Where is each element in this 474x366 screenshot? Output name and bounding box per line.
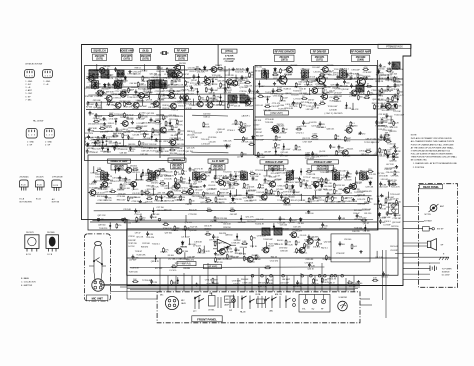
right connectors [389,203,399,214]
svg-text:CT71 2.2K: CT71 2.2K [174,85,184,87]
resistor R67 [220,82,227,88]
svg-text:CT48 220: CT48 220 [377,156,386,158]
label [269,244,279,246]
wire [94,209,370,212]
resistor R26 [391,182,397,186]
label [390,180,398,182]
resistor R28 [379,148,387,154]
svg-text:Q85 0.01: Q85 0.01 [361,154,370,156]
label [147,189,157,191]
label [291,95,299,97]
resistor R53 [142,76,149,82]
label [263,96,271,98]
label [169,119,179,121]
label [132,201,141,203]
resistor R63 [325,178,330,184]
svg-text:4 : ANT: 4 : ANT [25,89,32,92]
svg-text:R85 0.047: R85 0.047 [117,199,127,201]
label [285,188,294,190]
resistor R57 [363,67,369,71]
svg-text:L80 100: L80 100 [363,230,371,232]
label [280,156,289,158]
svg-text:MIC UNIT: MIC UNIT [92,297,104,301]
svg-text:TC96 5.6K: TC96 5.6K [139,117,149,119]
label [168,258,176,260]
label [124,223,132,225]
svg-text:R57 22K: R57 22K [201,71,209,73]
switches mid [240,296,265,314]
resistor R92 [272,72,278,76]
label [219,242,228,244]
label [324,87,332,89]
label [194,242,202,244]
svg-text:D60 220: D60 220 [164,209,172,211]
svg-text:Q92 560: Q92 560 [319,228,327,230]
label [209,141,217,143]
resistor R95 [152,128,158,134]
wire [267,96,268,103]
resistor R92 [277,191,284,197]
label [328,75,338,77]
resistor R34 [222,175,228,179]
label [390,246,399,248]
svg-text:L23 6.8K: L23 6.8K [329,109,337,111]
label [239,91,247,93]
label [335,88,342,90]
capacitor C75 [289,217,298,222]
wire [100,101,102,108]
label AMF [242,115,250,118]
svg-text:TC67 47: TC67 47 [171,110,179,112]
legend abbreviation [21,277,36,287]
label [192,196,201,198]
label [175,191,182,193]
label [344,179,352,181]
wire [142,169,143,176]
label [387,144,397,146]
svg-text:RF AMP: RF AMP [177,49,187,53]
wire [92,218,373,221]
label [374,154,383,156]
label [98,200,107,202]
svg-text:D87 22K: D87 22K [273,148,281,150]
label [146,237,155,239]
capacitor C79 [293,189,301,194]
label [216,132,223,134]
svg-text:R36 6.8K: R36 6.8K [285,175,294,177]
label [190,83,201,85]
label [192,192,200,194]
label [334,179,343,181]
resistor R50 [249,72,255,78]
label [165,188,174,190]
label [231,243,240,245]
capacitor C60 [337,75,344,80]
label [141,154,149,156]
transistor RF 321.4 [315,74,331,85]
svg-text:2SC600: 2SC600 [288,196,296,198]
label [194,172,202,174]
label [152,243,161,245]
capacitor C47 [124,177,131,182]
wire [236,233,237,240]
label [256,135,264,137]
label [160,201,168,203]
transformer cluster at 228 [228,95,237,103]
svg-text:R94 5.6K: R94 5.6K [157,71,166,73]
svg-text:TC38 47: TC38 47 [135,251,143,253]
label [223,227,231,229]
resistor R46 [368,197,374,203]
label [110,181,118,183]
label [246,101,255,103]
diode D13 [104,83,106,88]
label [364,202,372,204]
transformer cluster at 274 [274,228,282,235]
label [293,91,302,93]
label [274,155,283,157]
label [278,105,285,107]
transistor Q34 [198,172,212,179]
svg-text:2SC1969: 2SC1969 [47,232,54,234]
label [133,72,142,74]
label [344,73,353,75]
resistor R21 [171,264,177,268]
transistor Q53 [97,66,111,73]
label [170,94,180,96]
svg-text:Q9 22K: Q9 22K [230,203,237,205]
label [394,82,402,84]
wire [193,99,195,106]
label [108,123,116,125]
label [385,168,393,170]
transistor RF 361.4 [355,76,371,87]
resistor R85 [233,95,240,101]
label [161,186,169,188]
note text [411,135,458,169]
svg-text:2SC823: 2SC823 [236,79,244,81]
ground [307,210,310,213]
transistor Q56 [114,101,128,108]
svg-text:1. CHASSIS GND : AT BOTTOM NEG: 1. CHASSIS GND : AT BOTTOM NEGATIVE LINE [413,162,458,165]
label [308,103,316,105]
transistor Q6 [209,65,223,72]
resistor R52 [379,90,385,96]
label [322,259,332,261]
stage label 23MHz IF AMP [108,159,131,170]
svg-text:TC55 0.047: TC55 0.047 [390,194,401,196]
label [297,182,304,184]
label [168,130,175,132]
svg-text:TC31 100P: TC31 100P [378,122,388,124]
transistor package 2SC945 [20,180,29,191]
svg-text:Q92 33P: Q92 33P [226,251,234,253]
capacitor C14 [132,255,140,260]
svg-text:TC46 6.8K: TC46 6.8K [214,255,224,257]
label [391,226,399,228]
label [85,96,94,98]
label [337,178,345,180]
label [384,154,393,156]
label [140,134,148,136]
transistor Q36 [173,63,187,70]
label [199,179,208,181]
label [265,122,274,124]
wire [107,146,108,153]
svg-text:2SC339: 2SC339 [311,237,319,239]
label [268,181,276,183]
label [177,151,185,153]
svg-text:L32 0.047: L32 0.047 [338,171,347,173]
svg-text:Q15 10K: Q15 10K [341,89,349,91]
resistor R8 [359,88,365,94]
wire [176,133,178,140]
label [183,74,190,76]
label [392,218,401,220]
svg-text:2SC945(K): 2SC945(K) [20,176,29,178]
ground [323,84,326,87]
resistor R55 [385,139,391,143]
wire [115,118,116,125]
label [234,81,243,83]
label [357,203,366,205]
svg-text:CT31 100P: CT31 100P [216,105,226,107]
diode D15 [314,184,316,189]
label [182,183,191,185]
label [360,171,369,173]
label [138,88,147,90]
capacitor C91 [135,90,142,95]
svg-text:CT20 47: CT20 47 [132,222,140,224]
transformer cluster at 392 [392,62,400,69]
label PTBM057AOX [378,44,411,48]
resistor R69 [163,247,170,253]
wire [93,166,95,173]
capacitor C11 [311,151,318,156]
label [394,114,405,116]
resistor R63 [147,169,153,175]
svg-text:R12 0.047: R12 0.047 [273,140,283,142]
wire [159,66,161,158]
resistor R15 [128,88,135,94]
label [154,130,163,132]
label [189,71,197,73]
svg-text:TC12 2.2K: TC12 2.2K [92,148,102,150]
label [89,128,98,130]
resistor R23 [300,182,307,188]
label [117,199,127,201]
svg-text:D24 33P: D24 33P [188,257,196,259]
resistor R69 [136,217,144,223]
svg-text:455KHz IF AMP: 455KHz IF AMP [314,160,332,164]
transistor Q15 [159,126,173,133]
svg-text:C60 100P: C60 100P [324,186,333,188]
resistor R25 [143,94,149,98]
label [306,174,316,176]
svg-text:L63 4.7K: L63 4.7K [249,200,257,202]
svg-text:2SC101: 2SC101 [175,71,183,73]
label [391,108,399,110]
label [130,267,140,269]
label [351,69,360,71]
svg-text:EXT SP: EXT SP [437,229,444,231]
label [280,152,289,154]
svg-text:R72 22K: R72 22K [257,188,265,190]
label [379,129,386,131]
label [224,141,233,143]
svg-text:2SC344: 2SC344 [265,193,273,195]
label [190,137,198,139]
board outline osc box [331,234,370,262]
label [240,171,248,173]
svg-text:C78 100P: C78 100P [351,69,360,71]
svg-text:D88 100P: D88 100P [326,172,335,174]
vertical wires to front panel [160,258,354,292]
label [257,188,265,190]
svg-text:NOISE AMP: NOISE AMP [120,49,134,53]
label [273,72,281,74]
svg-text:ANL ON: ANL ON [275,293,282,296]
label [155,91,165,93]
label [262,235,272,237]
svg-text:D21 1K: D21 1K [234,105,241,107]
label [163,141,172,143]
svg-text:L48 0.1: L48 0.1 [90,183,97,185]
resistor R94 [243,183,250,189]
label [329,90,336,92]
junction row [251,274,343,277]
svg-text:L90 220: L90 220 [194,85,202,87]
label [101,151,110,153]
svg-text:D59 47: D59 47 [308,100,315,102]
capacitor C63 [394,212,402,217]
svg-text:TC65 560: TC65 560 [85,96,94,98]
label [285,171,294,173]
svg-text:TC6 0.01: TC6 0.01 [308,76,317,78]
resistor R17 [174,225,180,231]
svg-text:FOLLOW: A VIEW OF MAJOR ORDER: FOLLOW: A VIEW OF MAJOR ORDER WIRES [411,153,453,156]
label [345,197,353,199]
label [282,149,292,151]
resistor R86 [121,80,127,86]
svg-text:TC71 47: TC71 47 [303,177,311,179]
svg-text:L57 33P: L57 33P [384,224,392,226]
resistor R25 [247,194,254,198]
svg-text:TC99 6.8K: TC99 6.8K [283,192,293,194]
svg-text:Q25 2.2K: Q25 2.2K [187,147,196,149]
label [227,130,236,132]
label [155,141,163,143]
label [228,188,236,190]
transistor Q9 [100,180,114,187]
label [387,68,396,70]
label [220,189,228,191]
svg-text:D59 470: D59 470 [140,130,148,132]
label [157,207,165,209]
wire [169,120,170,127]
label [328,106,339,108]
svg-text:1 : GND: 1 : GND [45,141,52,143]
label [377,125,386,127]
svg-text:TC32 10K: TC32 10K [235,72,244,74]
label [87,148,95,150]
label [193,246,202,248]
label [306,109,314,111]
ground [315,77,318,80]
svg-text:L47 470: L47 470 [279,101,287,103]
svg-text:D42 560: D42 560 [203,113,211,115]
svg-text:C61 6.8K: C61 6.8K [263,183,272,185]
resistor R3 [132,279,138,282]
label [238,222,247,224]
svg-text:2SC1675: 2SC1675 [172,166,182,169]
label [380,126,388,128]
label [237,156,244,158]
label [156,176,164,178]
svg-text:2SC221: 2SC221 [346,148,354,150]
svg-text:R32 150: R32 150 [92,74,100,76]
legend header CH selector [25,64,42,66]
label [365,95,373,97]
svg-text:L91 47: L91 47 [391,66,398,68]
svg-text:R73 5.6K: R73 5.6K [357,195,366,197]
label [156,115,164,117]
resistor R33 [285,239,292,245]
svg-text:Q72 4.7K: Q72 4.7K [246,217,255,219]
svg-text:TC44 22K: TC44 22K [377,66,386,68]
resistor R44 [107,73,112,79]
svg-text:2SC409: 2SC409 [106,180,114,182]
svg-text:TC89 5.6K: TC89 5.6K [129,271,139,273]
label [377,196,385,198]
capacitor C41 [176,75,183,80]
svg-text:R44 1K: R44 1K [271,256,278,258]
label [97,108,103,110]
svg-text:D85 2.2K: D85 2.2K [224,141,233,143]
label [194,186,203,188]
svg-text:CT23 100P: CT23 100P [300,73,310,75]
resistor R52 [155,195,162,201]
wire [168,182,170,189]
svg-text:C34 0.1: C34 0.1 [334,155,342,157]
capacitor C7 [88,128,95,133]
resistor R53 [171,80,178,86]
IF transformer T at 95 [92,79,99,90]
wire [149,86,151,93]
label [294,226,302,228]
connector symbol J3 [26,129,37,139]
label [161,85,170,87]
svg-text:D15 6.8K: D15 6.8K [272,229,281,231]
svg-text:CT95 22K: CT95 22K [293,150,302,152]
speaker SP [403,239,444,251]
label [335,96,343,98]
label [220,192,229,194]
label [224,259,233,261]
svg-text:D8 6.8K: D8 6.8K [234,240,242,242]
label [219,199,227,201]
label [390,205,400,207]
label [357,191,366,193]
svg-text:L50 0.1: L50 0.1 [334,79,341,81]
label [104,183,113,185]
resistor R57 [393,121,400,127]
resistor R92 [265,188,271,194]
label [206,284,216,286]
label [235,199,243,201]
label [175,116,184,118]
capacitor C73 [119,176,126,181]
